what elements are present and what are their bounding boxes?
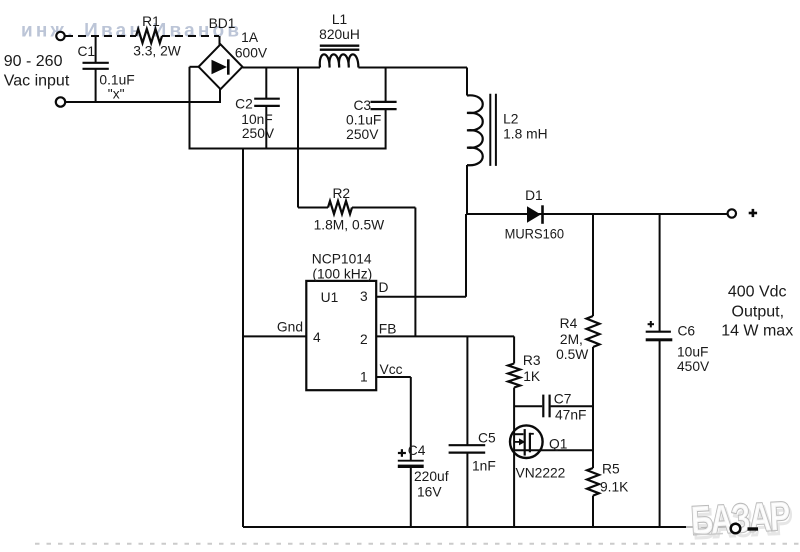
svg-text:0.1uF: 0.1uF (99, 73, 134, 88)
svg-text:47nF: 47nF (555, 408, 586, 423)
svg-text:220uf: 220uf (414, 469, 449, 484)
svg-text:3.3, 2W: 3.3, 2W (133, 44, 181, 59)
svg-text:10nF: 10nF (241, 112, 272, 127)
svg-text:C1: C1 (77, 44, 95, 59)
svg-text:R1: R1 (142, 14, 160, 29)
svg-text:4: 4 (313, 330, 321, 345)
svg-text:250V: 250V (242, 126, 275, 141)
svg-text:1.8 mH: 1.8 mH (503, 127, 547, 142)
svg-text:БАЗАР: БАЗАР (690, 493, 791, 543)
svg-text:10uF: 10uF (677, 345, 708, 360)
svg-text:2: 2 (360, 332, 368, 347)
svg-text:Vcc: Vcc (380, 362, 403, 377)
svg-text:NCP1014: NCP1014 (312, 252, 372, 267)
svg-text:1K: 1K (523, 369, 541, 384)
svg-text:Gnd: Gnd (277, 320, 303, 335)
svg-text:MURS160: MURS160 (505, 227, 565, 242)
svg-text:L1: L1 (332, 12, 347, 27)
svg-text:0.5W: 0.5W (556, 347, 588, 362)
svg-text:C5: C5 (478, 431, 496, 446)
svg-text:16V: 16V (417, 485, 442, 500)
svg-text:Output,: Output, (732, 304, 784, 321)
svg-text:U1: U1 (321, 290, 339, 305)
svg-text:0.1uF: 0.1uF (346, 113, 381, 128)
svg-text:14 W max: 14 W max (721, 323, 793, 340)
svg-text:Q1: Q1 (549, 437, 567, 452)
svg-text:90 - 260: 90 - 260 (4, 53, 63, 70)
svg-text:C7: C7 (554, 392, 572, 407)
svg-text:FB: FB (379, 322, 397, 337)
svg-text:C4: C4 (408, 443, 426, 458)
svg-text:R4: R4 (560, 316, 578, 331)
svg-text:1nF: 1nF (472, 459, 496, 474)
svg-text:R3: R3 (523, 353, 541, 368)
svg-text:C2: C2 (235, 97, 253, 112)
svg-text:3: 3 (360, 289, 368, 304)
svg-text:Vac input: Vac input (4, 73, 70, 90)
svg-text:"x": "x" (108, 87, 125, 102)
svg-text:R2: R2 (332, 186, 350, 201)
svg-text:820uH: 820uH (319, 27, 360, 42)
svg-text:1A: 1A (241, 30, 259, 45)
svg-text:C6: C6 (677, 324, 695, 339)
svg-text:D: D (379, 280, 389, 295)
svg-text:C3: C3 (353, 98, 371, 113)
svg-text:D1: D1 (525, 188, 543, 203)
svg-text:1.8M, 0.5W: 1.8M, 0.5W (314, 218, 385, 233)
svg-text:BD1: BD1 (209, 16, 236, 31)
svg-text:VN2222: VN2222 (516, 466, 566, 481)
svg-text:(100 kHz): (100 kHz) (312, 267, 372, 282)
svg-text:2M,: 2M, (560, 332, 583, 347)
svg-text:L2: L2 (503, 112, 518, 127)
svg-text:400 Vdc: 400 Vdc (728, 284, 787, 301)
svg-text:9.1K: 9.1K (600, 480, 629, 495)
svg-text:450V: 450V (677, 359, 710, 374)
svg-text:R5: R5 (602, 462, 620, 477)
svg-text:1: 1 (360, 370, 368, 385)
svg-text:600V: 600V (235, 46, 268, 61)
svg-text:250V: 250V (346, 127, 379, 142)
